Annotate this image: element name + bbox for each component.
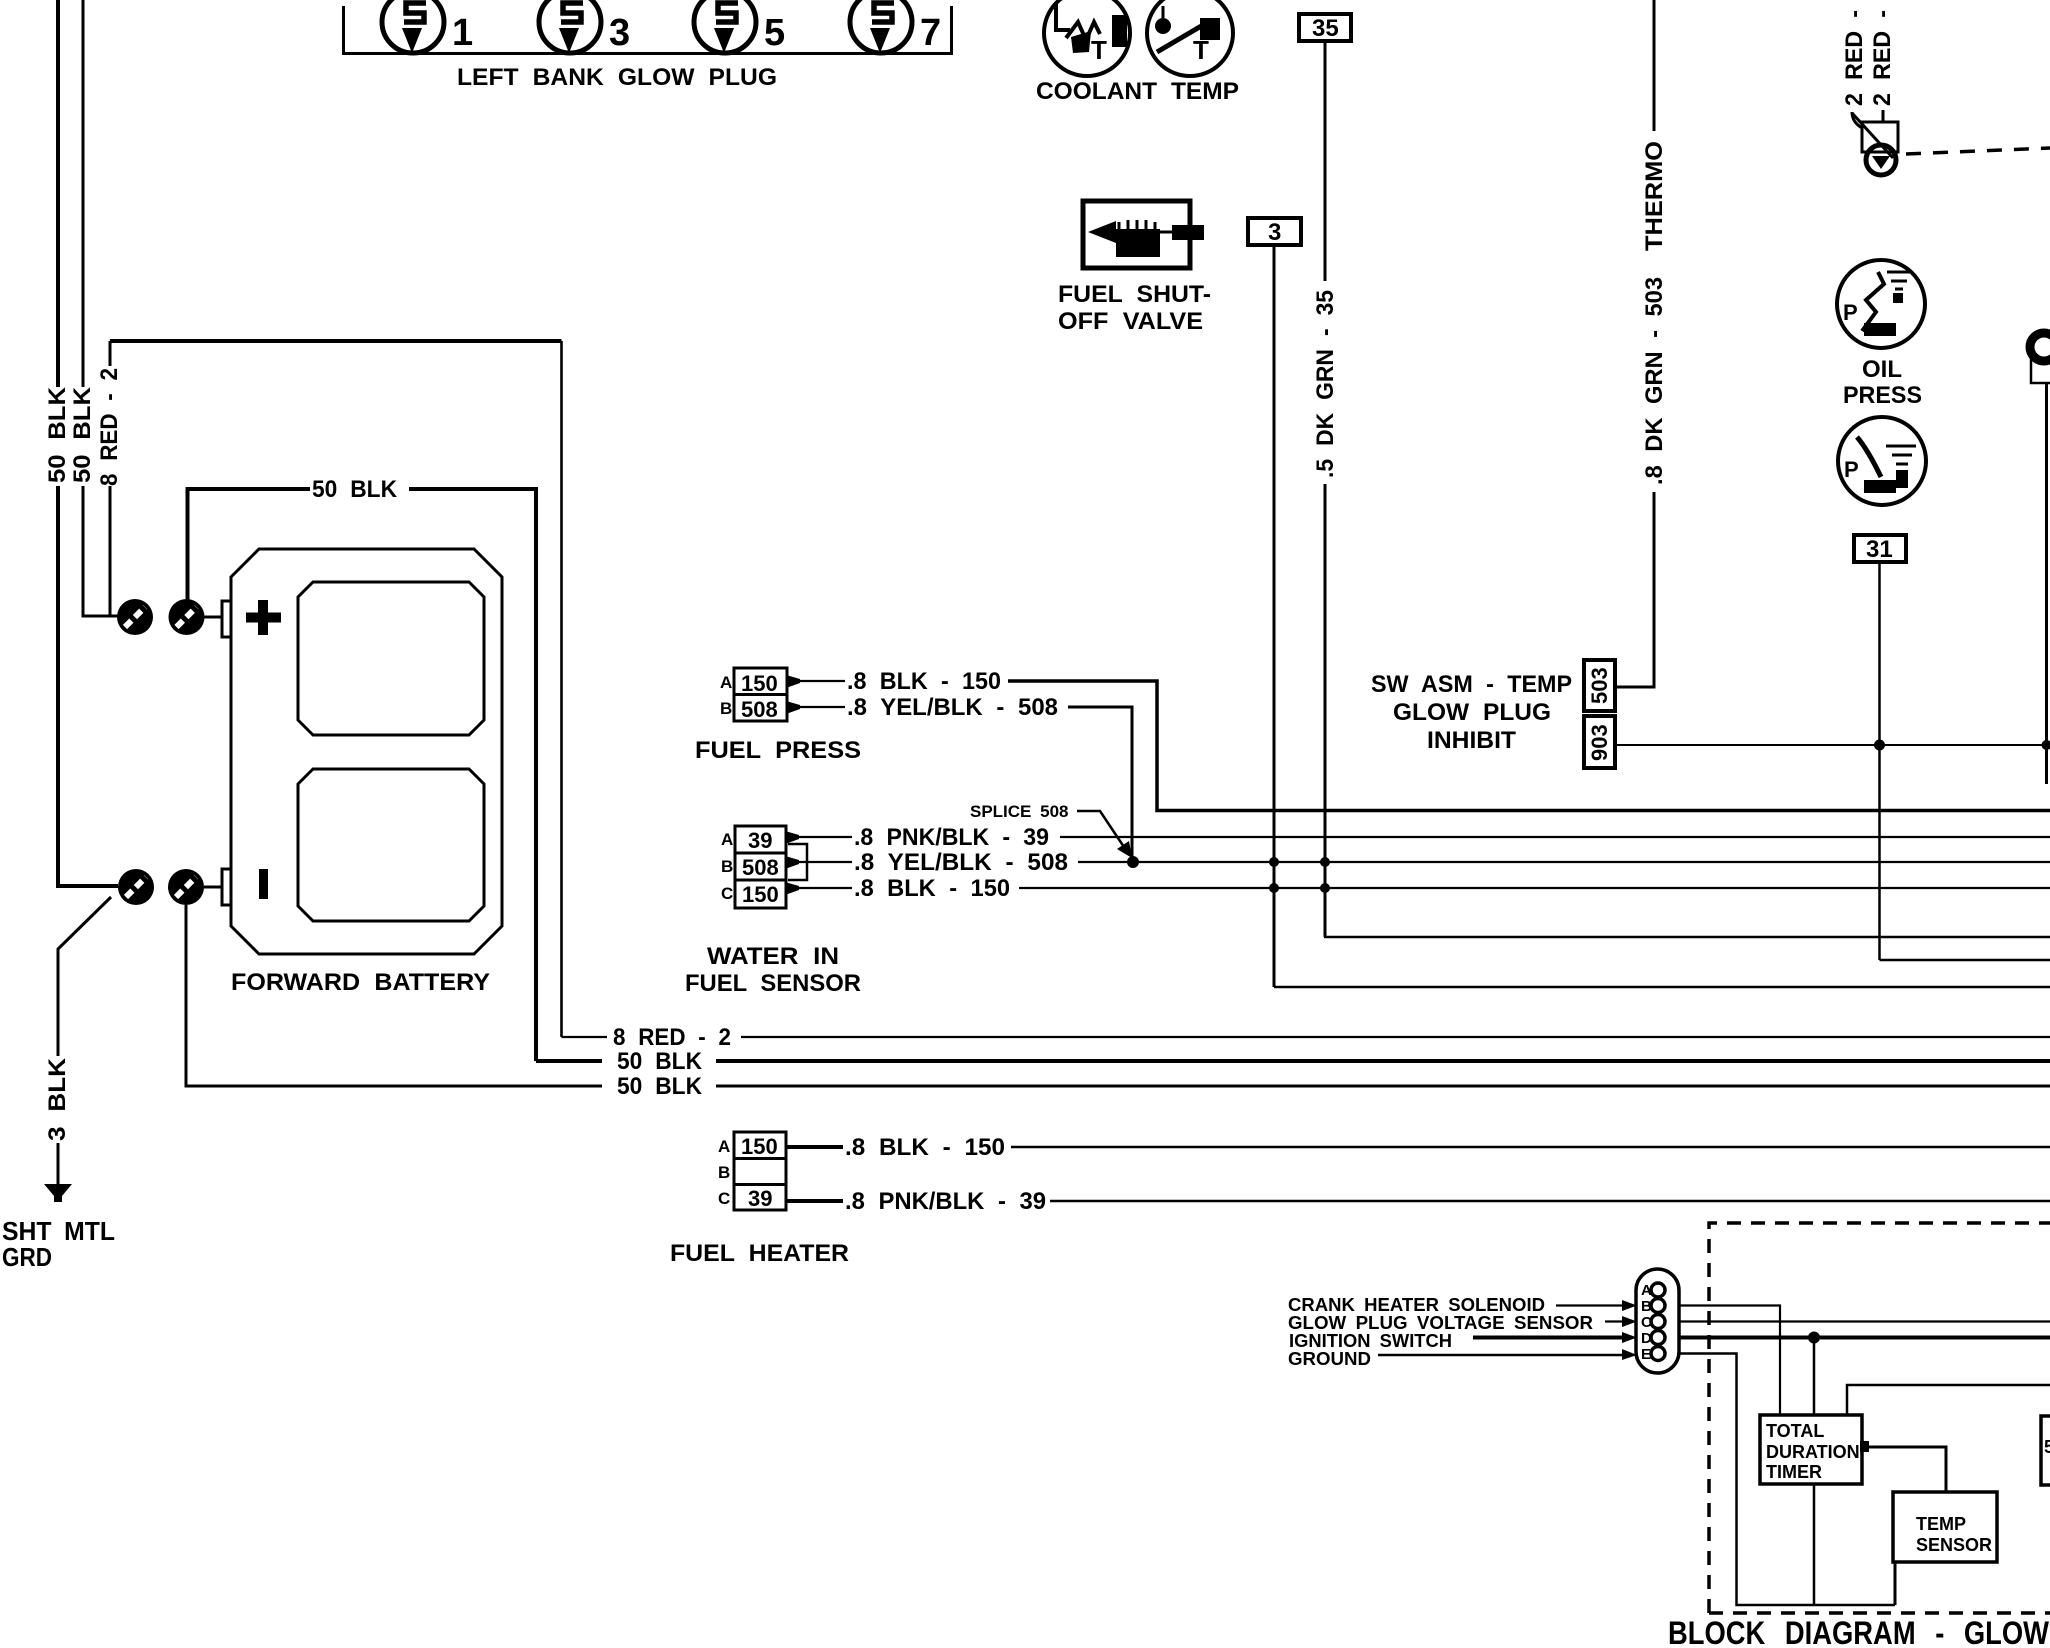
forward battery outline xyxy=(231,549,502,954)
svg-text:INHIBIT: INHIBIT xyxy=(1427,727,1516,754)
wire water sensor B stub xyxy=(790,861,852,863)
wire fuel heater A long xyxy=(1011,1146,2050,1149)
svg-text:.8 PNK/BLK - 39: .8 PNK/BLK - 39 xyxy=(854,824,1049,851)
total duration timer box xyxy=(1760,1415,1862,1484)
fuel press connector box xyxy=(734,668,787,722)
left bank glow plug bracket xyxy=(344,6,952,54)
svg-text:FUEL SHUT-: FUEL SHUT- xyxy=(1058,281,1211,308)
temp sensor bottom wire xyxy=(1894,1562,1897,1605)
fuel press pin A tab xyxy=(786,675,800,688)
svg-text:TOTAL: TOTAL xyxy=(1766,1421,1824,1441)
ground arrow head xyxy=(44,1184,72,1202)
svg-text:5: 5 xyxy=(764,12,785,54)
svg-text:TEMP: TEMP xyxy=(1916,1514,1966,1534)
svg-text:FUEL PRESS: FUEL PRESS xyxy=(695,737,861,764)
svg-text:P: P xyxy=(1844,457,1859,482)
wire timer to temp sensor xyxy=(1869,1447,1946,1492)
wire fuel heater C stub xyxy=(786,1199,843,1203)
wire pin B to timer xyxy=(1679,1306,1780,1416)
svg-text:A: A xyxy=(1641,1282,1652,1299)
timer connector pin E xyxy=(1651,1347,1665,1361)
svg-text:WATER IN: WATER IN xyxy=(707,943,839,970)
svg-text:IGNITION SWITCH: IGNITION SWITCH xyxy=(1289,1331,1452,1351)
bus 8 RED - 2 left stub xyxy=(562,1036,608,1038)
svg-text:1: 1 xyxy=(452,12,473,54)
svg-text:.8 BLK - 150: .8 BLK - 150 xyxy=(847,668,1001,695)
svg-text:.8 YEL/BLK - 508: .8 YEL/BLK - 508 xyxy=(854,849,1068,876)
bus from box 35 wire xyxy=(1324,936,2050,939)
wire bolt B to battery plus tab xyxy=(204,616,222,619)
fuel heater connector box xyxy=(734,1132,786,1211)
wire from box 35 down upper xyxy=(1324,41,1327,281)
svg-text:.8 YEL/BLK - 508: .8 YEL/BLK - 508 xyxy=(847,694,1058,721)
arrow ignition switch xyxy=(1622,1332,1637,1343)
wire pin D branch to timer xyxy=(1813,1338,1816,1416)
timer connector pin B xyxy=(1651,1299,1665,1313)
fusible link box xyxy=(1862,122,1898,152)
wire 50 BLK from plus bolt to drop xyxy=(188,489,311,600)
connector box 31 xyxy=(1854,535,1906,563)
glow plug 3 xyxy=(539,0,601,53)
connector box 3 xyxy=(1248,218,1301,246)
svg-text:TIMER: TIMER xyxy=(1766,1462,1822,1482)
svg-text:31: 31 xyxy=(1866,536,1893,563)
battery minus symbol xyxy=(259,869,268,899)
glow plug 1 xyxy=(382,0,444,53)
junction dot 508/box3 wire xyxy=(1269,857,1279,867)
svg-text:8 RED - 2: 8 RED - 2 xyxy=(96,368,123,486)
svg-text:GROUND: GROUND xyxy=(1288,1349,1371,1369)
splice dot xyxy=(1127,856,1139,868)
sw asm connector cell 503 xyxy=(1584,660,1615,711)
bolt plus B xyxy=(169,599,205,635)
svg-text:50 BLK: 50 BLK xyxy=(69,386,96,483)
svg-text:SPLICE 508: SPLICE 508 xyxy=(970,802,1069,821)
bus 50 BLK thick long line xyxy=(716,1059,2050,1063)
junction dot 150/box3 wire xyxy=(1269,883,1279,893)
splice arrow head xyxy=(1117,841,1132,858)
svg-text:150: 150 xyxy=(741,1134,778,1159)
block diagram dashed border bottom xyxy=(1709,1611,2050,1615)
svg-text:3 BLK: 3 BLK xyxy=(44,1057,71,1141)
svg-text:FUEL SENSOR: FUEL SENSOR xyxy=(685,970,861,997)
wire crank heater solenoid xyxy=(1556,1304,1624,1306)
svg-text:.8 BLK - 150: .8 BLK - 150 xyxy=(854,875,1010,902)
thermo wire lower xyxy=(1615,492,1654,687)
svg-text:.8 PNK/BLK - 39: .8 PNK/BLK - 39 xyxy=(845,1188,1046,1215)
svg-text:5: 5 xyxy=(2044,1437,2050,1457)
svg-text:2 RED -: 2 RED - xyxy=(1841,10,1868,106)
water sensor pin B tab xyxy=(785,856,799,869)
wire fuel press A to corner and bus xyxy=(1008,681,2050,811)
glow plug 7 xyxy=(850,0,912,53)
battery minus terminal tab xyxy=(222,869,231,905)
junction dot 508/box35 wire xyxy=(1320,857,1330,867)
svg-text:508: 508 xyxy=(742,855,779,880)
wire 8 RED - 2 feed top xyxy=(110,339,562,343)
svg-text:C: C xyxy=(718,1189,730,1208)
svg-text:503: 503 xyxy=(1587,667,1612,704)
connector box 35 xyxy=(1299,14,1351,42)
temp sensor box xyxy=(1893,1492,1997,1562)
svg-text:LEFT BANK GLOW PLUG: LEFT BANK GLOW PLUG xyxy=(457,64,777,91)
svg-text:A: A xyxy=(721,830,733,849)
right edge connector box xyxy=(2031,359,2050,383)
thermo wire upper xyxy=(1653,0,1656,131)
wire right feed into timer xyxy=(1847,1385,2050,1415)
wire water sensor A long xyxy=(1060,836,2050,838)
bus from 31 wire xyxy=(1880,959,2050,962)
wire 8 RED - 2 vertical to plus terminal xyxy=(109,341,112,366)
water in fuel sensor connector box xyxy=(735,826,786,908)
bolt plus A xyxy=(117,599,153,635)
junction dot 150/box35 wire xyxy=(1320,883,1330,893)
timer connector pin C xyxy=(1651,1315,1665,1329)
timer connector pin D xyxy=(1651,1331,1665,1345)
coolant temp gauge 1 xyxy=(1044,0,1130,76)
svg-text:PRESS: PRESS xyxy=(1843,382,1922,409)
svg-text:.5 DK GRN - 35: .5 DK GRN - 35 xyxy=(1312,290,1339,478)
wire 50 BLK vertical 2 upper xyxy=(82,0,85,387)
right edge connector bolt xyxy=(2030,333,2050,361)
svg-text:508: 508 xyxy=(741,697,778,722)
arrow ground xyxy=(1622,1349,1637,1360)
wire fuel press A stub xyxy=(789,680,845,682)
wire ground lower segment xyxy=(57,1143,60,1186)
svg-text:35: 35 xyxy=(1312,15,1339,42)
wire fuel heater C long xyxy=(1050,1200,2050,1203)
svg-text:CRANK HEATER SOLENOID: CRANK HEATER SOLENOID xyxy=(1288,1295,1545,1315)
svg-text:50 BLK: 50 BLK xyxy=(44,386,71,483)
svg-text:A: A xyxy=(720,673,732,692)
bolt minus D xyxy=(168,869,204,905)
wire pin D long xyxy=(1679,1336,2050,1340)
junction dot 903/31 xyxy=(1874,740,1885,751)
svg-text:B: B xyxy=(718,1163,730,1182)
wire 50 BLK vertical 1 lower to battery minus xyxy=(58,486,118,886)
wire 903 long xyxy=(1615,744,2050,746)
svg-text:D: D xyxy=(1641,1330,1652,1347)
bolt minus C xyxy=(118,869,154,905)
svg-text:SW ASM - TEMP: SW ASM - TEMP xyxy=(1371,671,1572,698)
svg-text:GLOW PLUG: GLOW PLUG xyxy=(1393,699,1551,726)
wire fuel heater A stub xyxy=(786,1145,843,1149)
svg-text:3: 3 xyxy=(609,12,630,54)
svg-text:P: P xyxy=(1843,300,1858,325)
wire glow plug voltage sensor xyxy=(1605,1320,1624,1322)
wire pin E to bottom rail xyxy=(1679,1354,1895,1606)
svg-text:SENSOR: SENSOR xyxy=(1916,1535,1992,1555)
svg-text:OFF VALVE: OFF VALVE xyxy=(1058,308,1203,335)
oil press gauge 2 xyxy=(1838,417,1926,505)
water sensor jumper bracket xyxy=(788,844,807,880)
wire bolt D to battery minus tab xyxy=(204,886,222,889)
battery cell bottom xyxy=(298,769,484,921)
svg-text:B: B xyxy=(1641,1298,1652,1315)
svg-text:.8 BLK - 150: .8 BLK - 150 xyxy=(845,1134,1005,1161)
svg-text:T: T xyxy=(1193,35,1209,65)
svg-text:3: 3 xyxy=(1268,219,1281,246)
svg-text:50 BLK: 50 BLK xyxy=(617,1073,703,1100)
svg-text:B: B xyxy=(721,857,733,876)
timer bottom wire xyxy=(1813,1484,1816,1605)
svg-text:50 BLK: 50 BLK xyxy=(617,1048,703,1075)
arrow crank heater solenoid xyxy=(1622,1300,1637,1311)
svg-text:150: 150 xyxy=(741,671,778,696)
wire from box 31 down xyxy=(1878,562,1881,960)
wire water sensor A stub xyxy=(790,836,852,838)
wire 50 BLK drop vertical xyxy=(409,489,536,1061)
fuel press pin B tab xyxy=(786,701,800,714)
svg-text:GLOW PLUG VOLTAGE SENSOR: GLOW PLUG VOLTAGE SENSOR xyxy=(1288,1313,1593,1333)
coolant temp gauge 2 xyxy=(1147,0,1233,76)
svg-text:THERMO: THERMO xyxy=(1641,141,1668,251)
svg-text:7: 7 xyxy=(920,12,941,54)
wire 50 BLK vertical 2 lower to battery plus xyxy=(83,486,118,616)
svg-text:39: 39 xyxy=(748,828,772,853)
wire from box 3 down xyxy=(1273,245,1276,987)
svg-text:FUEL HEATER: FUEL HEATER xyxy=(670,1240,849,1267)
svg-text:B: B xyxy=(720,699,732,718)
svg-text:A: A xyxy=(718,1137,730,1156)
svg-text:C: C xyxy=(721,884,733,903)
svg-text:DURATION: DURATION xyxy=(1766,1442,1860,1462)
battery cell top xyxy=(298,582,484,735)
fusible link connector circle xyxy=(1866,145,1896,175)
fusible link diagonal xyxy=(1852,113,1893,158)
svg-text:GRD: GRD xyxy=(2,1242,52,1272)
bus 8 RED - 2 long line xyxy=(741,1036,2050,1038)
block diagram dashed border xyxy=(1709,1223,2050,1613)
junction dot 903/right edge xyxy=(2042,740,2050,750)
svg-text:E: E xyxy=(1641,1346,1651,1363)
bus from box 3 wire xyxy=(1274,986,2050,989)
dashed wire to right edge xyxy=(1906,148,2050,154)
svg-text:39: 39 xyxy=(748,1186,772,1211)
wire water sensor B long xyxy=(1078,861,2050,863)
wire ground diagonal from bolt C xyxy=(58,897,111,1056)
svg-text:BLOCK DIAGRAM - GLOW: BLOCK DIAGRAM - GLOW xyxy=(1668,1615,2050,1648)
battery plus terminal tab xyxy=(222,601,231,637)
wire 50 BLK vertical 1 upper xyxy=(56,0,60,387)
arrow glow plug voltage sensor xyxy=(1622,1316,1637,1327)
svg-text:T: T xyxy=(1091,35,1107,65)
wire water sensor C long xyxy=(1019,887,2050,889)
svg-text:50 BLK: 50 BLK xyxy=(312,476,398,503)
fuel shut-off valve box xyxy=(1083,201,1204,268)
junction dot pin D branch xyxy=(1808,1332,1820,1344)
svg-text:FORWARD BATTERY: FORWARD BATTERY xyxy=(231,969,490,996)
water sensor pin C tab xyxy=(785,882,799,895)
svg-text:2 RED -: 2 RED - xyxy=(1869,10,1896,106)
splice pointer line xyxy=(1077,811,1124,847)
svg-text:150: 150 xyxy=(742,882,779,907)
wire ground label lead xyxy=(1378,1354,1624,1357)
svg-text:.8 DK GRN - 503: .8 DK GRN - 503 xyxy=(1641,277,1668,485)
sw asm connector cell 903 xyxy=(1584,716,1615,768)
wire bolt D drop to 50 BLK bus xyxy=(186,905,602,1086)
svg-text:8 RED - 2: 8 RED - 2 xyxy=(613,1024,731,1051)
wire 8 RED - 2 vertical drop to bus xyxy=(560,341,563,1037)
wire fuel press B to splice xyxy=(1068,707,1132,862)
oil press gauge 1 xyxy=(1837,260,1925,348)
fusible link leads xyxy=(1852,112,1862,128)
bus 50 BLK thick left stub xyxy=(536,1059,602,1063)
timer connector pin A xyxy=(1651,1283,1665,1297)
wire from box 35 down lower xyxy=(1324,484,1327,937)
svg-text:OIL: OIL xyxy=(1862,356,1902,383)
wire ignition switch xyxy=(1473,1336,1624,1340)
partial box right edge xyxy=(2041,1416,2050,1485)
water sensor pin A tab xyxy=(785,831,799,844)
wire water sensor C stub xyxy=(790,887,852,889)
timer connector oval xyxy=(1636,1269,1679,1373)
wire fuel press B stub xyxy=(789,706,845,708)
battery plus symbol xyxy=(246,600,281,635)
wire pin C long xyxy=(1679,1320,2050,1322)
right edge vertical wire xyxy=(2045,383,2048,784)
timer right nub xyxy=(1860,1441,1869,1452)
svg-text:903: 903 xyxy=(1587,724,1612,761)
glow plug 5 xyxy=(694,0,756,53)
svg-text:COOLANT TEMP: COOLANT TEMP xyxy=(1036,78,1239,105)
bus 50 BLK lower long line xyxy=(716,1085,2050,1088)
svg-text:C: C xyxy=(1641,1314,1652,1331)
